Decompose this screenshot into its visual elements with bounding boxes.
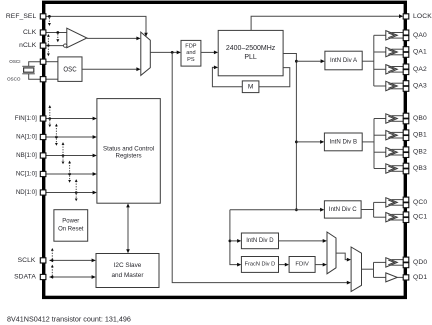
pad QB0 complement (403, 119, 409, 124)
divider FDIV (289, 257, 315, 273)
arrowhead mux1 into mux2 (347, 258, 351, 262)
wire IntN Div A to QA bus (362, 60, 374, 62)
wire mux output to FDP and PS (150, 51, 177, 53)
pullup arrowhead nCLK (47, 34, 50, 37)
arrowhead feedback into PLL (214, 66, 218, 70)
divider IntN Div C (324, 201, 361, 218)
junction dot ND[1:0] (75, 191, 78, 194)
pad QA2 complement (403, 70, 409, 75)
arrowhead IntN Div D into mux1 (323, 239, 327, 243)
arrowhead SCLK into I2C (92, 259, 96, 263)
arrowhead ND[1:0] into registers (93, 191, 97, 195)
pad CLK (40, 30, 46, 35)
arrowhead NB[1:0] into registers (93, 154, 97, 158)
junction dot on nCLK (47, 44, 49, 46)
wire CLK to buffer (46, 32, 67, 34)
pullup arrowhead SDATA (51, 265, 54, 268)
wire D-branch vertical (230, 210, 238, 265)
pulldown resistor REF_SEL (dashed) (48, 18, 50, 23)
differential output driver QB1 (374, 131, 403, 140)
svg-text:QD1: QD1 (413, 274, 427, 281)
block Status and Control Registers (97, 99, 160, 204)
junction dot SDATA (51, 276, 53, 278)
pullup arrowhead NA[1:0] (55, 124, 58, 127)
differential output driver QB0 (374, 114, 403, 123)
pad OSCO pin (40, 77, 46, 82)
svg-text:8V41NS0412 transistor count: 1: 8V41NS0412 transistor count: 131,496 (7, 314, 131, 323)
svg-text:LOCK: LOCK (413, 13, 432, 20)
arrowhead SDATA toward pad (49, 275, 53, 279)
pullup-pulldown resistor NC[1:0] (dotted) (69, 162, 71, 180)
QD distribution bus (373, 262, 375, 277)
divider FracN Div D (241, 257, 278, 273)
wire registers to I2C (127, 206, 129, 252)
svg-text:QA0: QA0 (413, 32, 427, 39)
pullup-pulldown resistor NB[1:0] (dotted) (62, 144, 64, 162)
junction dot NC[1:0] (68, 173, 71, 176)
arrowhead NA[1:0] into registers (93, 135, 97, 139)
pullup-pulldown resistor FIN[1:0] (dotted) (49, 107, 51, 125)
pad QB0 true (403, 113, 409, 118)
wire mux2 to QD drivers (362, 268, 374, 270)
svg-text:QA2: QA2 (413, 66, 427, 73)
pulldown arrowhead CLK (56, 39, 59, 42)
pad QA2 true (403, 64, 409, 69)
svg-text:CLK: CLK (23, 29, 37, 36)
junction dot SCLK (51, 259, 53, 261)
svg-text:QB1: QB1 (413, 132, 427, 139)
svg-text:REF_SEL: REF_SEL (6, 13, 37, 20)
pulldown arrowhead FIN[1:0] (48, 125, 51, 128)
wire NC[1:0] to registers (46, 173, 94, 175)
pad QB3 true (403, 163, 409, 168)
wire mux1 to mux2 (336, 253, 348, 260)
wire to IntN Div A (296, 60, 321, 62)
arrowhead into IntN Div A (321, 59, 325, 63)
input reference mux (141, 32, 151, 75)
wire to IntN Div C and D branch (230, 209, 321, 211)
pullup-pulldown resistor NA[1:0] (dotted) (55, 125, 57, 143)
pad SCLK (40, 258, 46, 263)
QC distribution bus (373, 202, 375, 217)
wire FIN[1:0] to registers (46, 118, 94, 120)
junction dot NB[1:0] (62, 154, 65, 157)
mux QD divider select (327, 232, 336, 274)
pullup arrowhead FIN[1:0] (48, 105, 51, 108)
wire FDP to PLL (201, 51, 215, 53)
svg-text:SCLK: SCLK (18, 257, 36, 264)
svg-text:OSC: OSC (63, 65, 77, 74)
svg-text:OSCI: OSCI (9, 59, 20, 64)
pad QA1 complement (403, 52, 409, 57)
svg-text:QD0: QD0 (413, 259, 427, 266)
wire PLL output (283, 54, 296, 210)
arrowhead FDIV into mux1 (323, 263, 327, 267)
svg-text:QC0: QC0 (413, 199, 427, 206)
svg-text:and Master: and Master (112, 272, 145, 279)
wire SCLK to I2C (50, 259, 93, 261)
wire IntN Div D to mux1 (279, 240, 324, 242)
pullup resistor SCLK (dotted) (51, 251, 53, 259)
arrowhead SCLK toward pad (49, 259, 53, 263)
wire OSCO pad to OSC (46, 78, 58, 80)
single-ended output driver QD1 (374, 273, 404, 282)
arrowhead into FDIV (285, 263, 289, 267)
arrowhead REF_SEL into mux (144, 33, 148, 37)
input buffer U1 (CLK/nCLK differential receiver) (63, 28, 86, 48)
wire reference bypass to mux2 (172, 52, 347, 282)
differential output driver QB3 (374, 164, 403, 173)
differential output driver QA0 (374, 31, 404, 40)
svg-text:FracN Div D: FracN Div D (245, 261, 275, 267)
arrowhead into IntN Div C (320, 208, 324, 212)
pullup arrowhead SCLK (51, 248, 54, 251)
differential output driver QC1 (374, 213, 404, 222)
junction dot PLL out to Div B (295, 141, 298, 144)
wire to IntN Div B (296, 141, 321, 143)
pulldown resistor CLK (dashed) (57, 34, 59, 40)
svg-text:SDATA: SDATA (14, 274, 36, 281)
pullup-pulldown resistor nCLK (dotted) (47, 36, 49, 54)
wire REF_SEL to mux select (46, 16, 146, 33)
svg-text:PS: PS (187, 57, 195, 63)
pad QD0 true (403, 257, 409, 262)
pad OSCI pin (40, 59, 46, 64)
differential output driver QA1 (374, 47, 404, 56)
arrowhead into FDP and PS (177, 51, 181, 55)
block Power On Reset (54, 210, 88, 242)
junction dot D-branch to IntN Div D (229, 240, 232, 243)
QB distribution bus (373, 119, 375, 169)
svg-text:IntN Div A: IntN Div A (330, 57, 358, 64)
pad SDATA (40, 274, 46, 279)
arrowhead into LOCK pad (399, 14, 403, 18)
svg-text:nCLK: nCLK (19, 42, 37, 49)
svg-text:ND[1:0]: ND[1:0] (16, 189, 37, 196)
wire IntN Div B to QB bus (362, 141, 374, 143)
arrowhead into PLL (214, 51, 218, 55)
arrowhead buffer out into mux (136, 37, 140, 41)
pulldown arrowhead ND[1:0] (75, 199, 78, 202)
svg-text:IntN Div B: IntN Div B (330, 138, 357, 145)
arrowhead into IntN Div D (237, 239, 241, 243)
block FDP and PS (181, 40, 201, 66)
pad QA1 true (403, 47, 409, 52)
wire PLL to LOCK (251, 16, 400, 30)
svg-text:and: and (186, 50, 195, 56)
block I2C Slave and Master (96, 254, 159, 288)
pad QD0 complement (403, 263, 409, 268)
arrowhead OSC out into mux (136, 67, 140, 71)
pad FIN[1:0] (40, 116, 46, 121)
arrowhead into FracN Div D (237, 263, 241, 267)
arrowhead into IntN Div B (320, 140, 324, 144)
junction dot NA[1:0] (55, 136, 58, 139)
junction dot on CLK (56, 31, 59, 34)
pad QA0 complement (403, 36, 409, 41)
pullup arrowhead NB[1:0] (62, 142, 65, 145)
svg-text:QA1: QA1 (413, 49, 427, 56)
mux QD output select (351, 247, 361, 292)
arrowhead up into registers (126, 203, 130, 207)
wire nCLK to buffer bubble (46, 45, 63, 47)
pad REF_SEL (40, 14, 46, 19)
svg-text:PLL: PLL (244, 54, 257, 61)
pad QB1 complement (403, 136, 409, 141)
svg-text:NC[1:0]: NC[1:0] (16, 171, 37, 178)
pad QA3 complement (403, 86, 409, 91)
crystal Y1 (22, 62, 40, 79)
wire FDIV to mux1 (315, 264, 323, 266)
junction dot mux output (171, 51, 174, 54)
pullup resistor SDATA (dotted) (51, 267, 53, 275)
junction dot FIN[1:0] (49, 117, 52, 120)
arrowhead bypass into mux2 (347, 281, 351, 285)
svg-text:On Reset: On Reset (58, 226, 84, 232)
pad QD1 (403, 275, 409, 280)
pad QB2 complement (403, 153, 409, 158)
differential output driver QB2 (374, 148, 403, 157)
wire NA[1:0] to registers (46, 136, 94, 138)
svg-text:OSCO: OSCO (7, 77, 21, 82)
pad LOCK (403, 14, 409, 19)
pulldown arrowhead NC[1:0] (68, 180, 71, 183)
pulldown arrowhead NB[1:0] (62, 162, 65, 165)
svg-text:QB3: QB3 (413, 165, 427, 172)
wire NB[1:0] to registers (46, 155, 94, 157)
differential output driver QA3 (374, 81, 404, 90)
differential output driver QD0 (374, 258, 404, 267)
pad QB1 true (403, 130, 409, 135)
pad QC0 true (403, 197, 409, 202)
svg-text:M: M (248, 83, 254, 90)
junction dot PLL out to Div A (295, 60, 298, 63)
QA distribution bus (373, 35, 375, 86)
wire M divider to PLL feedback input (212, 67, 242, 86)
pullup-pulldown resistor ND[1:0] (dotted) (75, 181, 77, 199)
wire OSCI pad to OSC (46, 61, 58, 63)
pad QA0 true (403, 30, 409, 35)
pad ND[1:0] (40, 190, 46, 195)
pullup arrowhead ND[1:0] (75, 179, 78, 182)
wire to IntN Div D (230, 240, 238, 242)
arrowhead SDATA into I2C (92, 275, 96, 279)
divider IntN Div B (324, 133, 362, 151)
svg-text:QB0: QB0 (413, 115, 427, 122)
svg-text:Registers: Registers (116, 153, 142, 160)
differential output driver QC0 (374, 198, 404, 207)
svg-text:QB2: QB2 (413, 149, 427, 156)
wire SDATA to I2C (50, 276, 93, 278)
svg-text:IntN Div C: IntN Div C (329, 206, 357, 213)
pad QC1 true (403, 212, 409, 217)
svg-text:IntN Div D: IntN Div D (246, 238, 274, 244)
pulldown arrowhead nCLK (47, 53, 50, 56)
pulldown arrowhead NA[1:0] (55, 143, 58, 146)
PLL U2 2400-2500MHz (218, 30, 283, 75)
pad nCLK (40, 43, 46, 48)
svg-text:FDP: FDP (185, 43, 196, 49)
svg-text:NA[1:0]: NA[1:0] (16, 134, 37, 141)
divider IntN Div D (241, 233, 278, 249)
junction dot PLL out to Div C (295, 208, 298, 211)
pad QB3 complement (403, 169, 409, 174)
arrowhead down into I2C (126, 249, 130, 253)
svg-text:FIN[1:0]: FIN[1:0] (15, 115, 37, 122)
pad QB2 true (403, 147, 409, 152)
pad QC0 complement (403, 203, 409, 208)
feedback divider M (242, 81, 259, 93)
differential output driver QA2 (374, 65, 404, 74)
pad NA[1:0] (40, 134, 46, 139)
svg-text:FDIV: FDIV (295, 261, 308, 267)
oscillator OSC (58, 57, 82, 82)
arrowhead FIN[1:0] into registers (93, 117, 97, 121)
svg-text:NB[1:0]: NB[1:0] (16, 152, 37, 159)
svg-text:Status and Control: Status and Control (103, 145, 154, 152)
wire FracN Div D to FDIV (279, 264, 286, 266)
svg-text:I2C Slave: I2C Slave (114, 262, 142, 269)
pad NC[1:0] (40, 171, 46, 176)
wire OSC output to mux (82, 68, 137, 70)
arrowhead NC[1:0] into registers (93, 172, 97, 176)
svg-text:2400–2500MHz: 2400–2500MHz (226, 45, 276, 52)
pad QA3 true (403, 81, 409, 86)
svg-text:QA3: QA3 (413, 83, 427, 90)
chip boundary box (44, 2, 406, 297)
divider IntN Div A (325, 51, 362, 70)
pullup arrowhead NC[1:0] (68, 161, 71, 164)
junction dot on REF_SEL (48, 15, 51, 18)
pad NB[1:0] (40, 153, 46, 158)
svg-text:QC1: QC1 (413, 214, 427, 221)
pulldown arrowhead REF_SEL (48, 23, 51, 26)
wire PLL feedback tap (259, 68, 290, 87)
wire ND[1:0] to registers (46, 192, 94, 194)
wire buffer output to mux (87, 37, 137, 39)
svg-text:Power: Power (62, 219, 79, 225)
wire IntN Div C to QC bus (361, 209, 374, 211)
pad QC1 complement (403, 218, 409, 223)
